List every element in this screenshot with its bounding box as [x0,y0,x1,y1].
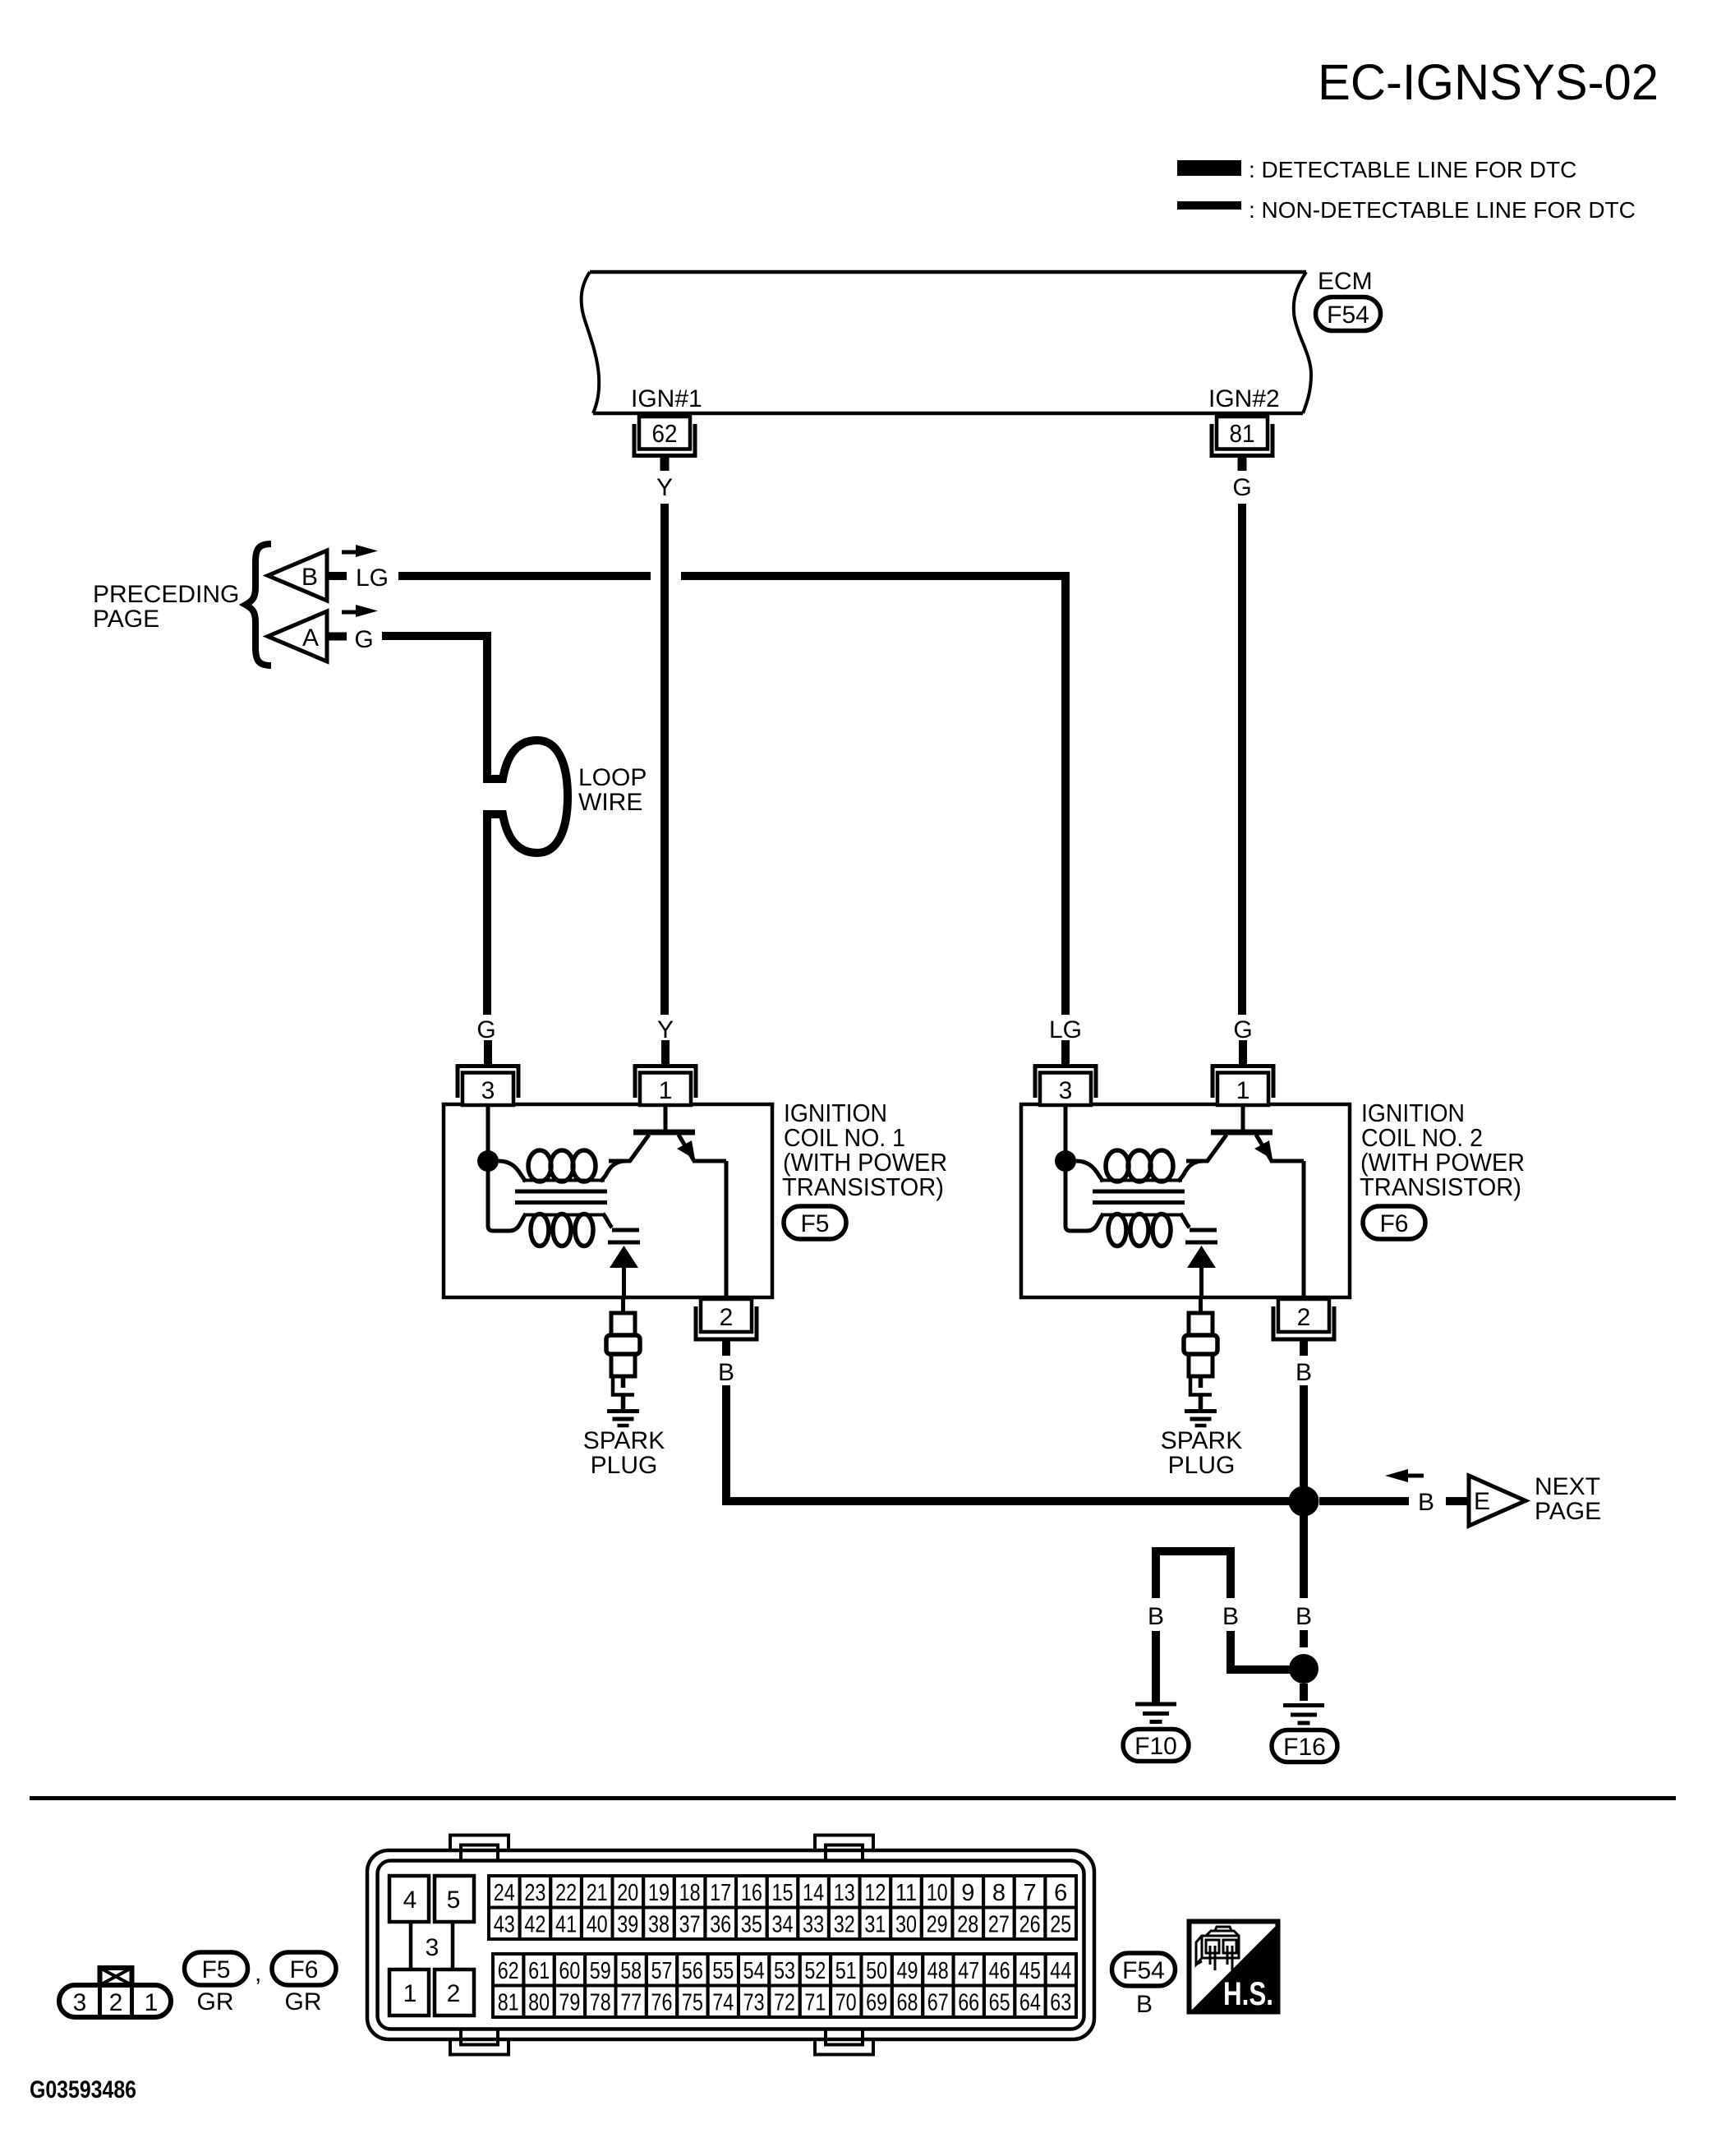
wire B short segment [1300,1630,1308,1647]
svg-text:50: 50 [866,1958,887,1984]
svg-text:1: 1 [145,1989,159,2016]
svg-text:69: 69 [866,1990,887,2016]
coil 2 pin 3 connector [1035,1040,1096,1105]
svg-text:3: 3 [481,1077,495,1104]
svg-text:72: 72 [774,1990,795,2016]
svg-text:70: 70 [835,1990,857,2016]
svg-text:62: 62 [652,419,678,448]
svg-text:IGN#2: IGN#2 [1208,385,1280,412]
connector ref F5 oval [784,1206,846,1239]
svg-text:GR: GR [197,1988,234,2015]
svg-text:F5: F5 [201,1956,230,1983]
NEXT PAGE label [1535,1473,1601,1525]
ECM pin 62 connector [634,417,695,471]
svg-text:B: B [1296,1603,1312,1630]
svg-text:WIRE: WIRE [578,789,642,816]
svg-text:18: 18 [679,1880,701,1906]
svg-text:3: 3 [73,1989,87,2016]
wire B horizontal to junction [722,1497,1290,1505]
svg-text:64: 64 [1019,1990,1041,2016]
ECM connector pin numbers [494,1880,1072,2016]
svg-text:16: 16 [741,1880,762,1906]
legend: detectable line sample [1177,160,1241,176]
coil 1 junction dot [477,1150,499,1172]
svg-text:4: 4 [403,1886,417,1914]
svg-text:23: 23 [524,1880,545,1906]
wire G vertical from ECM pin 81 to ignition coil no.2 pin 1 [1238,504,1246,1015]
svg-text:PAGE: PAGE [93,606,159,633]
svg-text:78: 78 [590,1990,611,2016]
wire B right vertical to junction 2 [1226,1631,1235,1665]
coil 2 transformer core [1093,1191,1185,1203]
svg-text:75: 75 [682,1990,703,2016]
svg-text:26: 26 [1019,1912,1041,1938]
ECM connector bottom tab left [450,2029,509,2055]
svg-text:2: 2 [1297,1304,1311,1331]
svg-text:54: 54 [743,1958,765,1984]
svg-text:58: 58 [620,1958,642,1984]
svg-text:30: 30 [895,1912,917,1938]
svg-text:2: 2 [720,1304,734,1331]
wire B horizontal into junction 2 [1226,1665,1291,1674]
wire B from coil 2 pin 2 down to junction [1300,1385,1308,1486]
svg-text:79: 79 [559,1990,580,2016]
junction dot (B splice) [1289,1486,1319,1517]
svg-text:F54: F54 [1122,1957,1165,1984]
svg-text:80: 80 [528,1990,550,2016]
connector ref F5 oval (bottom) [185,1952,248,1985]
svg-text:F54: F54 [1327,302,1369,329]
spark plug 2 [1161,1299,1242,1479]
wire B bridge top [1152,1547,1235,1555]
svg-text:40: 40 [587,1912,608,1938]
svg-text:F16: F16 [1283,1734,1326,1761]
ECM connector bottom tab right [815,2029,873,2055]
coil 1 label text [782,1099,947,1201]
3-pin coil connector face (F5/F6) [59,1968,171,2017]
svg-text:21: 21 [587,1880,608,1906]
coil 2 power transistor [1186,1105,1304,1297]
svg-text:17: 17 [710,1880,731,1906]
svg-text:29: 29 [927,1912,948,1938]
triangle A (from preceding page) [268,611,327,661]
svg-text:67: 67 [927,1990,949,2016]
separator line [30,1796,1676,1800]
svg-text:GR: GR [285,1988,322,2015]
svg-text:61: 61 [528,1958,550,1984]
svg-text:52: 52 [804,1958,826,1984]
svg-text:G03593486: G03593486 [30,2076,136,2103]
ECM connector top tab left [450,1836,509,1862]
svg-text:14: 14 [803,1880,824,1906]
svg-text:32: 32 [834,1912,855,1938]
wire B from junction down [1300,1516,1308,1598]
coil 2 pin 1 connector [1213,1040,1273,1105]
triangle B (from preceding page) [268,551,327,601]
svg-text:20: 20 [617,1880,638,1906]
svg-text:PAGE: PAGE [1535,1498,1601,1525]
svg-text:3: 3 [426,1934,440,1961]
svg-text:B: B [1136,1991,1153,2018]
svg-text:ECM: ECM [1318,268,1373,295]
svg-text:F6: F6 [289,1956,318,1983]
curly brace [246,544,271,666]
arrow pointing left above wire [1385,1469,1424,1482]
svg-text:19: 19 [648,1880,670,1906]
svg-text:55: 55 [712,1958,734,1984]
coil 2 junction dot [1055,1150,1076,1172]
svg-text:E: E [1474,1488,1490,1515]
svg-text:SPARK: SPARK [1161,1427,1242,1454]
svg-text:46: 46 [989,1958,1010,1984]
svg-text:LG: LG [356,564,389,592]
svg-text:B: B [1148,1603,1164,1630]
svg-text:11: 11 [895,1880,917,1906]
wire B bridge right vertical [1226,1547,1235,1598]
svg-text:53: 53 [774,1958,795,1984]
coil 1 primary winding [499,1150,631,1182]
wire B left vertical to F10 ground [1152,1631,1160,1702]
svg-text:7: 7 [1024,1880,1037,1906]
svg-text:60: 60 [559,1958,580,1984]
svg-text:35: 35 [741,1912,762,1938]
wire B from junction to next page [1319,1497,1409,1505]
coil 1 wire pin3 to junction [486,1105,490,1161]
svg-text:3: 3 [1059,1077,1073,1104]
svg-text:B: B [718,1359,734,1386]
svg-text:: DETECTABLE LINE FOR DTC: : DETECTABLE LINE FOR DTC [1249,157,1576,182]
svg-text:62: 62 [498,1958,519,1984]
svg-text:37: 37 [679,1912,701,1938]
stub from triangle B [327,572,347,580]
svg-text:G: G [1232,474,1251,501]
svg-text:66: 66 [958,1990,979,2016]
svg-text:F5: F5 [800,1210,829,1237]
wire G horizontal from triangle A [382,632,491,640]
wire B bridge left vertical [1152,1547,1160,1598]
svg-text:F6: F6 [1379,1210,1408,1237]
svg-text:B: B [1296,1359,1312,1386]
svg-text:G: G [354,626,373,653]
coil 1 pin 3 connector [458,1040,518,1105]
svg-text:8: 8 [992,1880,1006,1906]
svg-text:73: 73 [743,1990,765,2016]
svg-text:1: 1 [403,1980,417,2007]
wire G vertical upper [483,632,491,783]
svg-text:2: 2 [109,1989,123,2016]
ECM connector shell inner [378,1861,1084,2029]
svg-text:68: 68 [897,1990,918,2016]
svg-text:15: 15 [772,1880,794,1906]
coil 1 transformer core [515,1191,607,1203]
connector ref F6 oval [1363,1206,1425,1239]
coil 2 spark gap [1185,1230,1217,1299]
svg-text:27: 27 [988,1912,1010,1938]
svg-text:1: 1 [659,1077,673,1104]
stub from triangle A [327,633,347,641]
ECM connector top tab right [815,1836,873,1862]
svg-text:74: 74 [712,1990,734,2016]
ECM connector pin grid [489,1876,1076,2017]
wire G vertical lower to coil 1 pin 3 [483,814,491,1015]
coil 1 secondary winding [509,1214,612,1246]
svg-text:56: 56 [682,1958,703,1984]
coil 2 label text [1360,1099,1525,1201]
ground ref F16 oval [1272,1730,1337,1762]
ignition coil no. 1 box (F5) [444,1104,772,1297]
svg-text:G: G [476,1016,495,1043]
svg-text:25: 25 [1050,1912,1071,1938]
svg-text:49: 49 [897,1958,918,1984]
wire B stub to F16 ground [1300,1684,1308,1701]
svg-text:28: 28 [957,1912,978,1938]
svg-text:39: 39 [617,1912,638,1938]
svg-text:SPARK: SPARK [583,1427,665,1454]
svg-text:Y: Y [657,1016,674,1043]
ECM pin 81 connector [1212,417,1272,471]
ECM connector key cells [389,1876,474,2015]
svg-text:71: 71 [804,1990,826,2016]
coil 2 wire junction to secondary [1065,1161,1088,1231]
svg-text:47: 47 [958,1958,979,1984]
arrow above triangle A [342,605,378,617]
svg-text:LG: LG [1049,1016,1082,1043]
ECM box [582,272,1311,413]
coil 1 wire junction to secondary [488,1161,511,1231]
coil 1 pin 1 connector [635,1040,696,1105]
svg-text:45: 45 [1019,1958,1041,1984]
svg-text:13: 13 [834,1880,855,1906]
svg-text:65: 65 [989,1990,1010,2016]
junction dot 2 (B splice) [1289,1654,1319,1684]
svg-text:PRECEDING: PRECEDING [93,581,239,608]
svg-text:22: 22 [555,1880,577,1906]
svg-text:24: 24 [494,1880,515,1906]
LOOP WIRE label [578,764,647,816]
stub into triangle E [1446,1497,1468,1505]
svg-text:A: A [302,624,319,652]
ground symbol F16 [1283,1706,1324,1724]
svg-text:44: 44 [1050,1958,1071,1984]
svg-text:63: 63 [1050,1990,1071,2016]
triangle E (to next page) [1469,1476,1526,1526]
wire LG horizontal segment (left of Y crossover) [398,572,651,580]
coil 2 primary winding [1076,1150,1208,1182]
svg-text:6: 6 [1054,1880,1067,1906]
key cell numbers [403,1886,461,2007]
wire LG vertical down to coil 2 pin 3 [1061,572,1070,1015]
coil 2 pin 2 connector [1273,1299,1334,1356]
svg-text:TRANSISTOR): TRANSISTOR) [782,1172,944,1201]
svg-text:TRANSISTOR): TRANSISTOR) [1360,1172,1521,1201]
svg-text:81: 81 [498,1990,519,2016]
svg-text:38: 38 [648,1912,670,1938]
svg-text:H.S.: H.S. [1223,1976,1273,2012]
svg-text:81: 81 [1230,419,1255,448]
connector ref F6 oval (bottom) [272,1952,336,1985]
svg-text:B: B [301,564,318,591]
svg-text:LOOP: LOOP [578,764,647,791]
svg-text:12: 12 [864,1880,886,1906]
svg-text:59: 59 [590,1958,611,1984]
ignition coil no. 2 box (F6) [1021,1104,1350,1297]
svg-text:NEXT: NEXT [1535,1473,1600,1500]
svg-text:10: 10 [927,1880,948,1906]
svg-text:42: 42 [524,1912,545,1938]
svg-text:33: 33 [803,1912,824,1938]
coil 2 wire pin3 to junction [1064,1105,1068,1161]
wire B from coil 1 pin 2 down [722,1385,730,1501]
coil 1 pin 2 connector [696,1299,757,1356]
coil 2 secondary winding [1087,1214,1190,1246]
svg-text:,: , [255,1960,261,1987]
svg-text:77: 77 [620,1990,642,2016]
svg-text:41: 41 [555,1912,577,1938]
svg-text:IGN#1: IGN#1 [631,385,702,412]
legend: non-detectable line sample [1177,201,1241,210]
wire Y vertical from ECM pin 62 to ignition coil no.1 pin 1 [660,504,669,1015]
svg-text:Y: Y [656,474,673,501]
ECM connector ref F54 oval (bottom) [1112,1953,1176,1986]
arrow above triangle B [342,545,378,557]
svg-text:B: B [1418,1489,1434,1516]
ground symbol F10 [1135,1704,1176,1722]
svg-text:57: 57 [651,1958,673,1984]
coil 1 spark gap [608,1230,640,1299]
svg-text:9: 9 [961,1880,974,1906]
ECM connector ref F54 oval [1316,297,1381,331]
svg-text:76: 76 [651,1990,673,2016]
svg-text:43: 43 [494,1912,515,1938]
spark plug 1 [583,1299,665,1479]
wire LG horizontal segment (right of Y crossover) [681,572,1070,580]
svg-text:: NON-DETECTABLE LINE FOR DTC: : NON-DETECTABLE LINE FOR DTC [1249,197,1636,223]
svg-text:EC-IGNSYS-02: EC-IGNSYS-02 [1318,54,1659,110]
svg-text:PLUG: PLUG [1168,1452,1236,1479]
svg-text:PLUG: PLUG [591,1452,658,1479]
loop wire symbol [483,740,568,853]
svg-text:48: 48 [927,1958,949,1984]
PRECEDING PAGE label [93,581,239,633]
svg-text:2: 2 [447,1980,461,2007]
svg-text:1: 1 [1236,1077,1250,1104]
svg-text:31: 31 [864,1912,886,1938]
svg-text:5: 5 [447,1886,461,1914]
svg-text:B: B [1222,1603,1239,1630]
ECM connector shell outer [367,1850,1094,2039]
svg-text:36: 36 [710,1912,731,1938]
svg-text:G: G [1233,1016,1252,1043]
coil 1 power transistor [609,1105,726,1297]
ground ref F10 oval [1123,1730,1189,1762]
H.S. harness-side view symbol [1189,1922,1279,2014]
svg-text:F10: F10 [1134,1733,1177,1760]
svg-text:51: 51 [835,1958,857,1984]
svg-text:34: 34 [772,1912,794,1938]
